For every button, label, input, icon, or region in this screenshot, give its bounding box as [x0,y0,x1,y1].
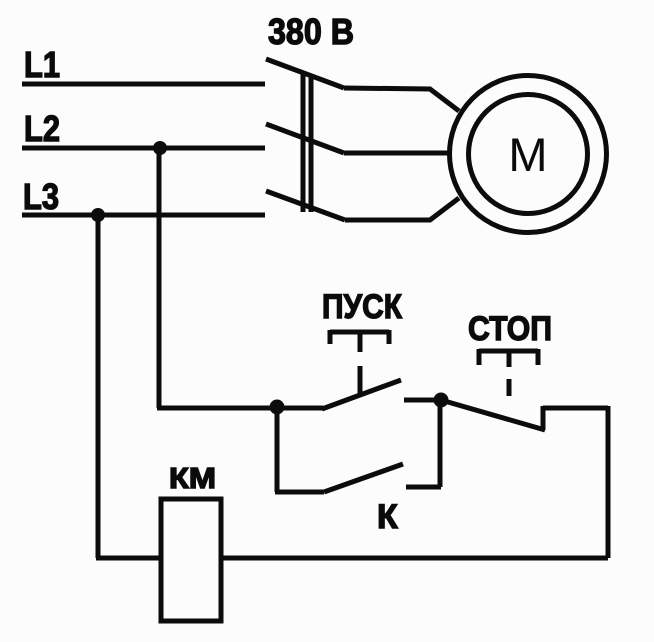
switch QF blade pole 3 [266,191,345,220]
wire phase 3 to motor [345,198,459,220]
coil KM [161,499,221,621]
wire L2 phase line [22,146,265,151]
switch QF blade pole 2 [266,124,344,153]
node L2 junction [153,141,167,155]
wire phase 2 to motor [344,151,452,156]
node control junction A [270,400,285,415]
pushbutton STOP actuator [479,349,538,396]
contact K right branch [406,400,441,487]
pushbutton PUSK actuator [330,330,389,395]
pushbutton STOP fixed contact tick [541,406,546,430]
contact K latch left branch [275,407,324,492]
wire L3 phase line [22,213,265,218]
wire L1 phase line [22,82,265,87]
wire bottom left to coil [96,556,161,561]
node control junction B [434,393,449,408]
contact K blade [324,464,403,492]
wire STOP to right rail [543,406,608,411]
wire control drop from L2 [157,148,162,408]
svg-text:КМ: КМ [169,463,216,495]
pushbutton STOP NC contact blade [441,400,545,430]
svg-text:СТОП: СТОП [468,310,552,348]
wire phase 1 to motor [344,88,459,111]
svg-text:L2: L2 [24,108,60,149]
svg-text:380 В: 380 В [268,11,354,52]
svg-text:М: М [508,128,547,181]
node L3 junction [91,208,105,222]
motor M inner circle [469,95,588,214]
wire coil to right rail [221,556,608,561]
motor M outer circle [450,76,607,233]
svg-text:К: К [377,498,398,536]
wire control horizontal to start button [157,406,323,411]
svg-text:L1: L1 [24,44,60,85]
switch QF blade pole 1 [266,59,344,88]
svg-text:ПУСК: ПУСК [322,288,402,326]
switch QF mechanical link [303,75,311,213]
wire between PUSK and STOP [404,398,441,403]
wire L3 drop to coil [96,215,101,558]
wire right rail down [606,406,611,558]
pushbutton PUSK NO contact blade [322,380,401,409]
svg-text:L3: L3 [23,176,59,217]
